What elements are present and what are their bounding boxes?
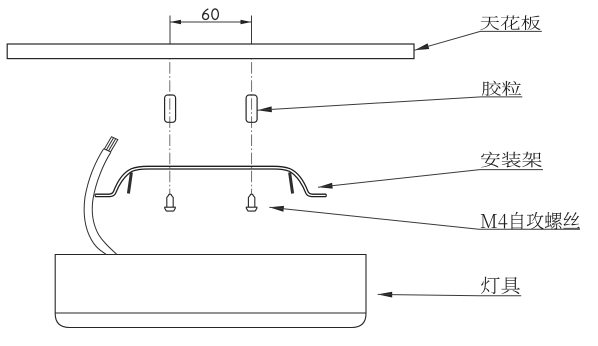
dimension 60: left arrowhead: [170, 20, 181, 25]
lamp body/lens joint line: [55, 312, 366, 314]
label jiaoli: [482, 81, 521, 96]
mounting bracket outer profile: [95, 166, 326, 194]
screw right (M4) shaft and tip: [248, 194, 254, 207]
leader dengju: line: [378, 294, 522, 295]
leader tianhuaban: arrowhead: [415, 43, 430, 50]
leader m4: arrowhead: [269, 206, 284, 212]
leader anzhuangjia: line: [318, 170, 543, 188]
mounting bracket inner profile: [95, 169, 326, 197]
bracket left spring tab: [128, 172, 131, 193]
dimension 60: dimension line: [170, 21, 252, 23]
bracket right spring tab: [290, 172, 293, 193]
bracket right foot end cap: [325, 194, 327, 196]
leader dengju: arrowhead: [378, 292, 393, 298]
dimension 60: right extension line: [251, 16, 253, 45]
wire stripped tip (ferrule): [104, 137, 118, 152]
leader anzhuangjia: arrowhead: [318, 183, 333, 189]
screw right head: [246, 207, 257, 211]
label anzhuangjia: [481, 152, 542, 168]
leader tianhuaban: line: [415, 31, 542, 50]
centerline right (dash-dot): [251, 44, 253, 194]
centerline left (dash-dot): [169, 44, 171, 194]
ceiling board (tianhuaban): [7, 44, 414, 59]
anchor left (jiaoli): [165, 95, 176, 122]
dimension 60: left extension line: [169, 16, 171, 45]
leader m4: line: [269, 207, 580, 229]
label tianhuaban: [480, 15, 540, 30]
dimension 60: value text digit 6: [203, 9, 209, 20]
lamp body outline (dengju): [55, 255, 366, 328]
anchor right (jiaoli): [246, 95, 257, 122]
leader jiaoli: line: [257, 97, 522, 110]
bracket left foot end cap: [94, 194, 96, 196]
label dengju: [481, 277, 520, 294]
label m4: [481, 212, 580, 230]
dimension 60: value text digit 0: [212, 9, 219, 20]
leader jiaoli: arrowhead: [257, 106, 272, 112]
wire right edge: [92, 152, 117, 254]
screw left (M4) shaft and tip: [167, 194, 173, 207]
wire left edge: [84, 149, 106, 255]
screw left head: [165, 207, 176, 211]
dimension 60: right arrowhead: [241, 20, 252, 25]
